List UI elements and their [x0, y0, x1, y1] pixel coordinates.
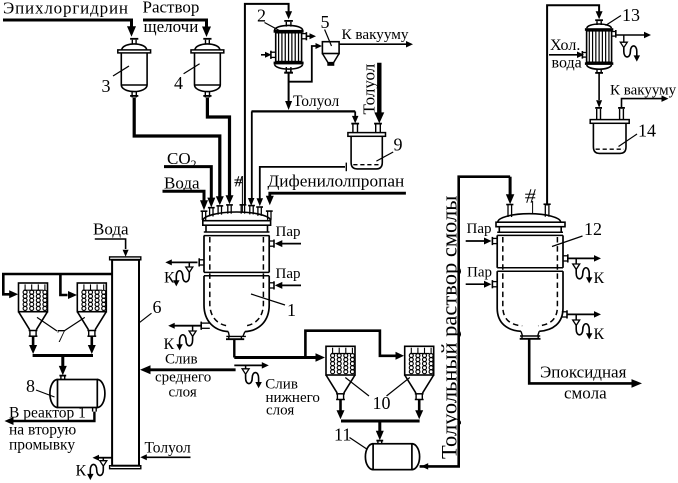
svg-text:6: 6	[153, 297, 162, 317]
svg-text:2: 2	[191, 157, 197, 171]
svg-text:среднего: среднего	[155, 370, 211, 386]
svg-text:Раствор: Раствор	[143, 0, 200, 17]
svg-text:Пар: Пар	[276, 266, 301, 282]
svg-text:К вакууму: К вакууму	[342, 26, 409, 43]
svg-text:Пар: Пар	[467, 221, 492, 237]
svg-text:Толуол: Толуол	[293, 93, 339, 110]
svg-text:Пар: Пар	[467, 265, 492, 281]
svg-text:В реактор 1: В реактор 1	[9, 405, 86, 422]
svg-text:7: 7	[57, 326, 66, 346]
svg-text:К: К	[594, 270, 605, 287]
svg-text:Дифенилолпропан: Дифенилолпропан	[268, 171, 405, 190]
svg-text:К: К	[594, 326, 605, 343]
svg-text:8: 8	[26, 376, 35, 396]
svg-text:13: 13	[622, 5, 640, 25]
svg-text:1: 1	[287, 300, 296, 320]
svg-text:Пар: Пар	[276, 224, 301, 240]
svg-text:слоя: слоя	[266, 403, 294, 419]
svg-text:4: 4	[174, 73, 183, 93]
svg-text:5: 5	[321, 12, 330, 32]
svg-text:3: 3	[102, 76, 111, 96]
svg-text:Эпихлоргидрин: Эпихлоргидрин	[3, 0, 129, 18]
svg-text:Толуол: Толуол	[145, 440, 191, 457]
svg-text:смола: смола	[564, 384, 607, 403]
svg-text:К вакууму: К вакууму	[610, 83, 677, 99]
svg-text:К: К	[164, 270, 175, 287]
svg-text:9: 9	[394, 135, 403, 155]
svg-text:11: 11	[334, 425, 351, 445]
svg-text:12: 12	[584, 219, 602, 239]
svg-text:промывку: промывку	[9, 437, 75, 454]
svg-text:Толуольный раствор смолы: Толуольный раствор смолы	[436, 196, 461, 459]
svg-text:Вода: Вода	[93, 220, 129, 239]
svg-text:Эпоксидная: Эпоксидная	[540, 363, 627, 382]
svg-text:Толуол: Толуол	[360, 63, 379, 114]
svg-text:слоя: слоя	[169, 385, 197, 401]
svg-text:К: К	[164, 336, 175, 353]
svg-text:Вода: Вода	[164, 174, 200, 193]
svg-text:10: 10	[373, 393, 391, 413]
svg-text:Хол.: Хол.	[550, 37, 580, 54]
svg-text:К: К	[76, 463, 87, 480]
svg-text:14: 14	[638, 121, 656, 141]
svg-text:Слив: Слив	[165, 352, 198, 368]
